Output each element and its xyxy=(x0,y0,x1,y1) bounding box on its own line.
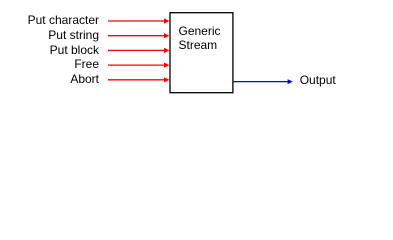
label: Abort xyxy=(70,72,99,86)
wire: Output arrow xyxy=(233,79,293,84)
label: Put string xyxy=(48,28,99,42)
wire: Put string input arrow xyxy=(108,33,169,38)
block: Generic Stream box outline xyxy=(170,13,233,93)
wire: Free input arrow xyxy=(108,63,169,68)
label: Free xyxy=(74,57,99,71)
wire: Put block input arrow xyxy=(108,48,169,53)
block: Generic Stream box text line 2 xyxy=(179,38,218,52)
wire: Put character input arrow xyxy=(108,18,169,23)
label: Put block xyxy=(50,43,99,57)
label: Output xyxy=(300,73,336,87)
block: Generic Stream box text line 1 xyxy=(179,24,221,38)
label: Put character xyxy=(28,13,99,27)
wire: Abort input arrow xyxy=(108,77,169,82)
